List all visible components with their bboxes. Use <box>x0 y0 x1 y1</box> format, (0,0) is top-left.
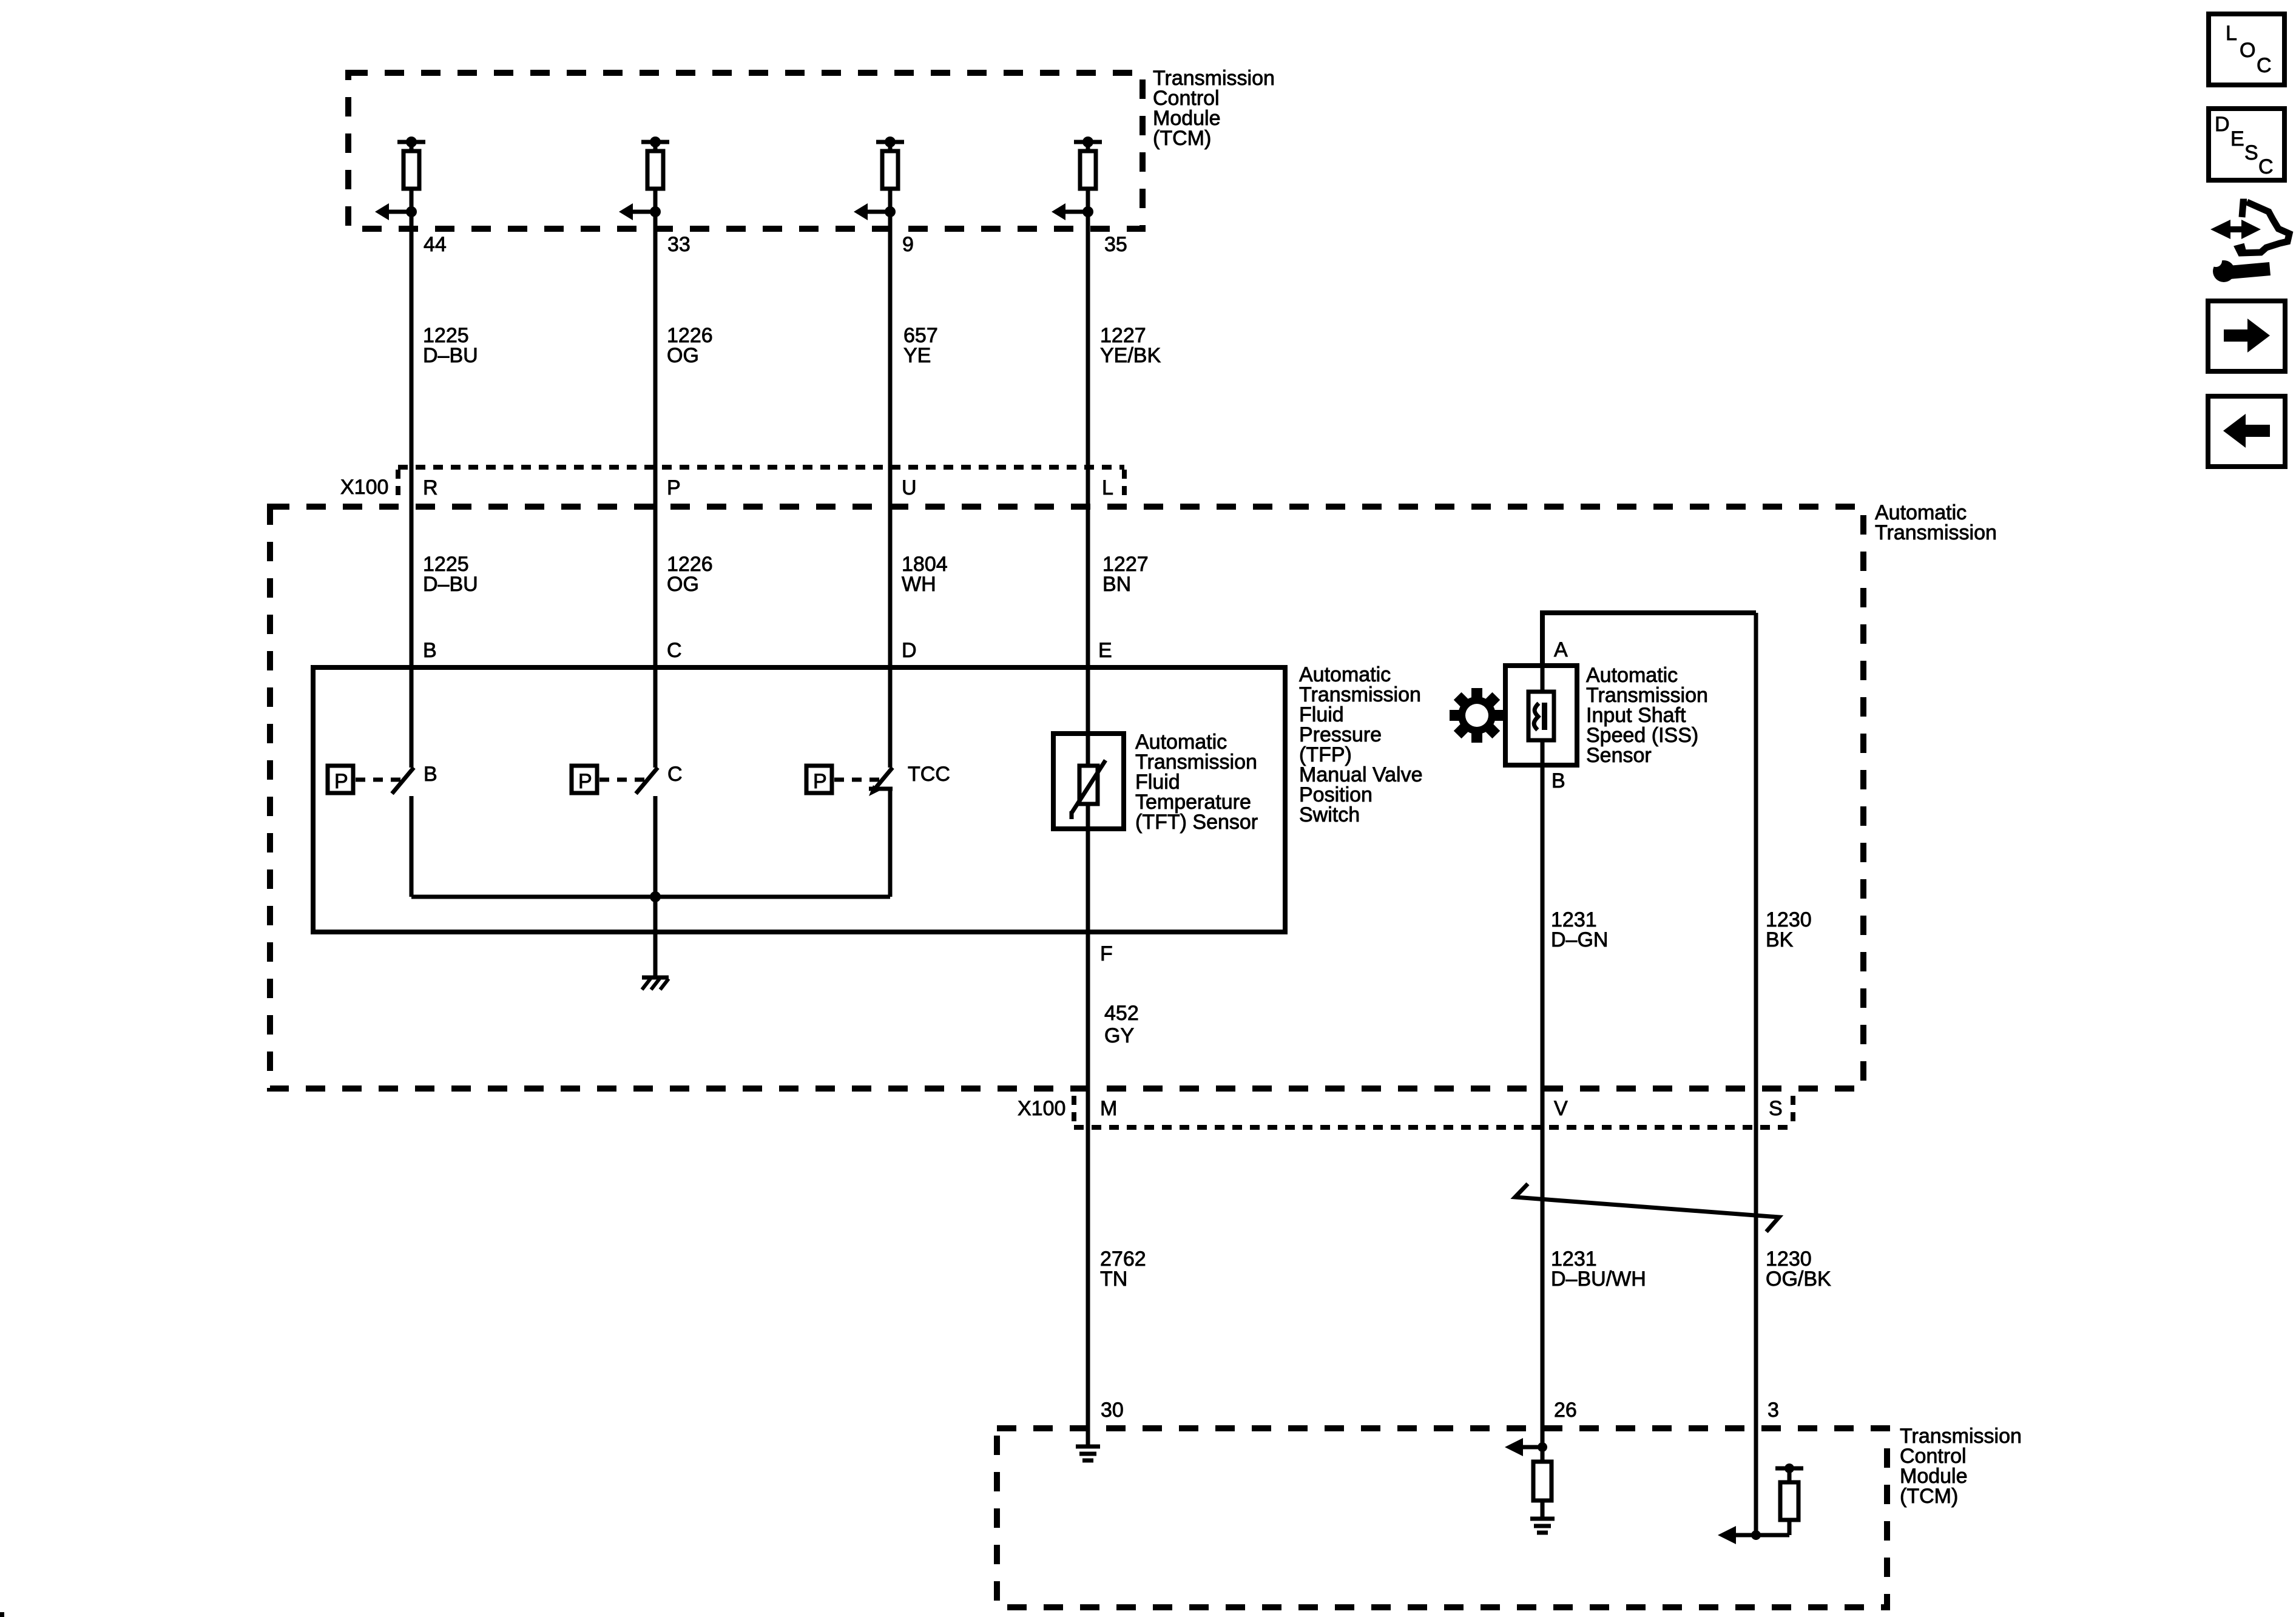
svg-text:YE: YE <box>903 344 931 367</box>
svg-text:BK: BK <box>1766 928 1794 951</box>
svg-text:P: P <box>813 770 827 793</box>
svg-text:YE/BK: YE/BK <box>1100 344 1161 367</box>
wire 657 YE (pin 9 to X100 U) <box>888 212 893 768</box>
label wire 1227 YE/BK <box>1100 324 1161 367</box>
label wire 1804 WH <box>902 553 948 596</box>
svg-text:C: C <box>2257 54 2272 77</box>
wire switch B lower contact to bus <box>410 796 414 897</box>
label wire 1226 OG inside <box>667 553 713 596</box>
wire crossover symbol <box>1515 1184 1779 1232</box>
svg-text:L: L <box>2226 22 2237 45</box>
svg-text:44: 44 <box>424 233 447 256</box>
connector X100 top (dotted) <box>398 467 1124 501</box>
connector X100 bottom (dotted) <box>1074 1096 1793 1127</box>
ground below pin 26 resistor (earth) <box>1530 1519 1555 1533</box>
label TCM bottom <box>1900 1425 2022 1508</box>
icon box DESC <box>2209 109 2284 180</box>
svg-text:(TCM): (TCM) <box>1153 127 1211 150</box>
junction at TCM pin 3 <box>1751 1530 1761 1540</box>
svg-text:B: B <box>1551 769 1565 792</box>
resistor TCM driver pin 44 <box>375 137 425 220</box>
wire 1225 D-BU (pin 44 to X100 R) <box>410 212 414 768</box>
svg-text:D–BU: D–BU <box>423 344 478 367</box>
svg-text:B: B <box>424 763 437 786</box>
wire ISS pin A loop <box>1542 613 1756 666</box>
dashed link TCC <box>834 778 880 782</box>
svg-text:U: U <box>902 476 917 499</box>
svg-text:S: S <box>1769 1097 1783 1120</box>
svg-text:P: P <box>334 770 348 793</box>
svg-text:E: E <box>1098 639 1112 662</box>
wire 1230 BK (ISS A to X100 S) <box>1754 613 1758 1535</box>
label wire 2762 TN <box>1100 1247 1146 1291</box>
svg-text:C: C <box>667 763 683 786</box>
ISS pickup element <box>1528 692 1554 740</box>
svg-text:R: R <box>423 476 438 499</box>
icon harness with double arrow and wrench <box>2210 202 2289 282</box>
wire switch C lower contact to bus <box>653 796 658 897</box>
svg-text:Switch: Switch <box>1299 803 1360 826</box>
svg-text:D–BU: D–BU <box>423 573 478 596</box>
wire 1227 YE/BK (pin 35 down through TFT sensor) <box>1086 212 1090 1447</box>
component box: TFP Manual Valve Position Switch <box>313 667 1285 932</box>
label ISS sensor <box>1586 664 1708 767</box>
P-box for switch C <box>572 766 597 793</box>
TCC switch blade with arrowhead <box>869 768 893 796</box>
svg-text:BN: BN <box>1102 573 1131 596</box>
label wire 1231 D-BU/WH <box>1551 1247 1646 1291</box>
arrow at TCM pin 26 <box>1505 1438 1542 1456</box>
wire ground tap <box>653 897 658 977</box>
svg-text:9: 9 <box>902 233 914 256</box>
svg-text:L: L <box>1102 476 1113 499</box>
resistor at TCM pin 3 <box>1756 1463 1803 1535</box>
gear icon <box>1450 688 1504 743</box>
svg-text:OG/BK: OG/BK <box>1766 1268 1831 1291</box>
arrow at TCM pin 3 <box>1718 1526 1756 1544</box>
svg-text:(TCM): (TCM) <box>1900 1485 1958 1508</box>
svg-text:F: F <box>1100 942 1113 965</box>
icon box arrow left <box>2208 396 2285 467</box>
label TCM top <box>1153 67 1275 150</box>
label wire 1226 OG <box>667 324 713 367</box>
svg-text:M: M <box>1100 1097 1117 1120</box>
label Automatic Transmission <box>1875 501 1997 544</box>
label wire 1227 BN <box>1102 553 1149 596</box>
label TFT sensor <box>1135 731 1258 834</box>
svg-text:(TFT) Sensor: (TFT) Sensor <box>1135 811 1258 834</box>
svg-text:WH: WH <box>902 573 936 596</box>
bus wire joining switches <box>411 895 890 899</box>
label wire 657 YE <box>903 324 938 367</box>
svg-text:C: C <box>667 639 682 662</box>
svg-text:Sensor: Sensor <box>1586 744 1652 767</box>
module box: Transmission Control Module (TCM) top <box>348 73 1143 229</box>
junction at TCM pin 26 <box>1538 1442 1547 1452</box>
svg-text:OG: OG <box>667 573 699 596</box>
switch blade switch C <box>636 768 658 794</box>
svg-text:TN: TN <box>1100 1268 1127 1291</box>
svg-text:E: E <box>2230 127 2244 150</box>
junction bus to ground tap <box>650 891 661 902</box>
switch blade switch B <box>392 768 414 794</box>
label wire 1231 D-GN <box>1551 908 1608 951</box>
svg-text:A: A <box>1554 638 1568 661</box>
svg-text:O: O <box>2240 39 2255 62</box>
label wire 1225 D-BU <box>423 324 478 367</box>
label wire 1230 OG/BK <box>1766 1247 1831 1291</box>
wire through ISS sensor <box>1541 666 1545 765</box>
page corner mark <box>0 1612 4 1617</box>
svg-text:30: 30 <box>1101 1399 1124 1422</box>
svg-text:TCC: TCC <box>908 763 950 786</box>
ground at TCM pin 30 (earth) <box>1076 1447 1100 1460</box>
P-box for switch B <box>328 766 353 793</box>
svg-text:X100: X100 <box>1018 1097 1065 1120</box>
svg-text:35: 35 <box>1104 233 1127 256</box>
svg-text:D–BU/WH: D–BU/WH <box>1551 1268 1646 1291</box>
dashed link switch B <box>356 778 402 782</box>
svg-text:C: C <box>2258 155 2274 178</box>
ground (switch common) <box>642 977 669 990</box>
svg-text:P: P <box>578 770 592 793</box>
resistor TCM driver pin 9 <box>854 137 904 220</box>
svg-text:OG: OG <box>667 344 699 367</box>
module box: Automatic Transmission <box>270 507 1863 1089</box>
icon box arrow right <box>2208 301 2285 371</box>
label wire 452 GY <box>1104 1002 1139 1047</box>
resistor TCM driver pin 35 <box>1052 137 1102 220</box>
wire 1226 OG (pin 33 to X100 P) <box>653 212 658 768</box>
svg-text:X100: X100 <box>340 476 388 499</box>
component box: TFT sensor <box>1053 734 1124 829</box>
svg-text:3: 3 <box>1768 1399 1779 1422</box>
label wire 1225 D-BU inside <box>423 553 478 596</box>
svg-text:GY: GY <box>1104 1024 1134 1047</box>
svg-text:D: D <box>2215 113 2230 136</box>
label TFP switch <box>1299 663 1423 826</box>
svg-text:452: 452 <box>1104 1002 1139 1025</box>
thermistor symbol TFT <box>1072 760 1106 819</box>
component box: ISS sensor outer <box>1505 666 1577 765</box>
svg-text:D: D <box>902 639 917 662</box>
icon box LOC <box>2209 14 2284 85</box>
svg-text:33: 33 <box>667 233 690 256</box>
svg-text:S: S <box>2244 141 2258 164</box>
svg-text:26: 26 <box>1554 1399 1577 1422</box>
wire TCC lower contact to bus <box>888 789 893 897</box>
wire 1231 D-GN (ISS B to X100 V) <box>1541 765 1545 1445</box>
svg-text:B: B <box>423 639 437 662</box>
P-box for TCC switch <box>806 766 832 793</box>
svg-text:D–GN: D–GN <box>1551 928 1608 951</box>
svg-text:P: P <box>667 476 681 499</box>
dashed link switch C <box>599 778 646 782</box>
svg-text:V: V <box>1554 1097 1568 1120</box>
resistor TCM driver pin 33 <box>619 137 669 220</box>
module box: Transmission Control Module (TCM) bottom <box>997 1428 1887 1607</box>
svg-text:Transmission: Transmission <box>1875 521 1997 544</box>
resistor at TCM pin 26 <box>1533 1447 1551 1519</box>
label wire 1230 BK <box>1766 908 1812 951</box>
